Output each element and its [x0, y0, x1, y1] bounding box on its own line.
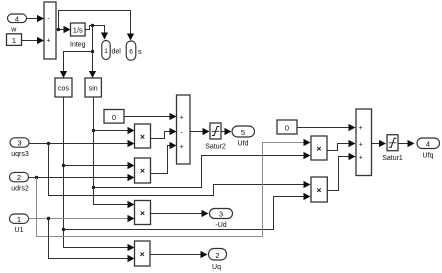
svg-text:2: 2 — [215, 251, 219, 260]
node cos branch 1 — [62, 164, 65, 167]
wire inport2 to product P2 input 2 — [29, 174, 135, 181]
svg-text:Integ: Integ — [70, 42, 86, 49]
svg-text:3: 3 — [219, 210, 223, 219]
svg-text:4: 4 — [15, 14, 19, 23]
svg-text:U1: U1 — [15, 227, 24, 234]
wire sin branch to product P5 input 2 — [94, 152, 311, 188]
constant w value 1 — [7, 27, 22, 46]
node cos branch 2 — [62, 228, 65, 231]
outport 5 Ufd — [232, 126, 255, 147]
product P4 — [135, 241, 151, 266]
svg-text:+: + — [46, 38, 50, 45]
svg-text:×: × — [317, 185, 322, 195]
svg-text:6: 6 — [129, 48, 133, 55]
svg-text:0: 0 — [112, 113, 116, 122]
svg-text:w: w — [10, 27, 17, 34]
constant 0 first — [104, 110, 124, 124]
svg-text:s: s — [138, 49, 142, 56]
svg-text:0: 0 — [285, 124, 289, 133]
product P1 — [135, 124, 151, 148]
wire P2 output to Sum2 plus — [151, 142, 177, 174]
wire cos output trunk to product P4 input 1 — [64, 98, 135, 252]
wire Integ output down to sin — [89, 26, 96, 79]
saturation Satur2 — [205, 123, 226, 150]
product P5 — [311, 136, 327, 160]
wire P5 output to Sum3 input 2 — [328, 140, 356, 151]
wire inport1 to product P3 input 2 — [29, 215, 135, 222]
svg-text:+: + — [359, 141, 363, 148]
svg-text:Ufq: Ufq — [423, 153, 434, 160]
wire branch to cos — [60, 52, 93, 79]
svg-text:Ufd: Ufd — [238, 140, 249, 147]
wire Sum3 output to Satur1 — [372, 140, 387, 147]
sum block Sum3 — [356, 109, 372, 176]
svg-text:+: + — [179, 144, 183, 151]
svg-text:udrs2: udrs2 — [11, 185, 29, 192]
wire Integ output to outport del — [86, 26, 109, 40]
node uqrs3 junction — [47, 142, 50, 145]
outport 2 Uq — [209, 249, 227, 272]
trig block sin — [85, 78, 101, 97]
svg-text:2: 2 — [17, 173, 21, 182]
svg-text:Satur1: Satur1 — [382, 155, 403, 162]
svg-text:4: 4 — [426, 140, 430, 149]
sum block Sum1 — [44, 2, 56, 59]
svg-text:1: 1 — [12, 36, 16, 45]
svg-text:uqrs3: uqrs3 — [11, 151, 29, 158]
wire constant0 to Sum2 input 1 — [125, 113, 177, 120]
svg-text:del: del — [112, 49, 122, 56]
wire cos branch to product P2 input 1 — [64, 162, 135, 169]
svg-text:5: 5 — [241, 128, 245, 137]
svg-text:×: × — [140, 208, 145, 218]
wire inport3 to product P1 input 2 — [30, 140, 135, 147]
inport 3 — [10, 138, 29, 158]
sum block Sum2 — [177, 95, 191, 164]
wire sin output trunk to product P3 input 1 — [94, 98, 135, 209]
node theta junction — [91, 50, 94, 53]
product P3 — [135, 201, 151, 225]
svg-text:1: 1 — [17, 215, 21, 224]
svg-text:Satur2: Satur2 — [205, 143, 226, 150]
wire constant w to Sum1 plus — [22, 37, 45, 44]
wire sin branch to product P1 input 1 — [94, 127, 135, 134]
wire inport4 to Sum1 minus — [27, 15, 45, 22]
svg-text:3: 3 — [17, 139, 21, 148]
svg-text:-Ud: -Ud — [215, 222, 226, 229]
svg-text:cos: cos — [58, 86, 69, 93]
product P2 — [135, 158, 151, 183]
outport 4 Ufq — [417, 138, 440, 160]
trig block cos — [55, 78, 72, 97]
wire Sum1 output to Integ — [57, 26, 71, 33]
wire Sum1 output branch to outport s — [59, 11, 135, 41]
svg-text:1/s: 1/s — [73, 26, 83, 35]
outport 1 del — [102, 41, 121, 60]
wire cos branch to product P6 input 2 — [64, 193, 311, 230]
product P6 — [311, 177, 327, 202]
svg-text:+: + — [179, 115, 183, 122]
integrator Integ 1/s — [70, 23, 86, 49]
wire P3 output to outport -Ud — [151, 210, 209, 217]
node Sum1 output junction — [57, 28, 60, 31]
svg-text:×: × — [317, 144, 322, 154]
svg-text:×: × — [140, 166, 145, 176]
svg-text:1: 1 — [104, 48, 108, 55]
wire uqrs3 branch to product P6 input 1 — [49, 144, 311, 196]
wire udrs2 branch to product P5 input 1 — [37, 139, 311, 237]
svg-text:+: + — [359, 125, 363, 132]
inport 1 — [10, 214, 29, 234]
wire P4 output to outport Uq — [151, 251, 208, 258]
node U1 junction — [47, 217, 50, 220]
outport 3 -Ud — [210, 209, 233, 230]
wire P6 output to Sum3 input 3 — [328, 153, 356, 191]
inport 2 — [10, 172, 29, 192]
node sin branch 1 — [92, 129, 95, 132]
wire Sum2 output to Satur2 — [191, 128, 210, 135]
svg-text:×: × — [140, 132, 145, 142]
svg-text:+: + — [359, 155, 363, 162]
svg-text:Uq: Uq — [212, 264, 221, 271]
outport 6 s — [126, 41, 142, 60]
wire constant0 second to Sum3 input 1 — [298, 124, 356, 131]
inport 4 — [8, 14, 27, 23]
node sin branch 2 — [92, 186, 95, 189]
svg-text:×: × — [140, 249, 145, 259]
constant 0 second — [277, 120, 297, 134]
wire U1 branch to product P4 input 2 — [49, 219, 135, 263]
wire P1 output to Sum2 minus — [151, 128, 177, 139]
node Integ output junction — [91, 24, 94, 27]
node udrs2 junction — [35, 176, 38, 179]
wire Satur2 to outport 5 — [222, 128, 232, 135]
wire Satur1 to outport 4 Ufq — [399, 140, 415, 147]
svg-text:sin: sin — [89, 86, 98, 93]
saturation Satur1 — [382, 135, 403, 162]
